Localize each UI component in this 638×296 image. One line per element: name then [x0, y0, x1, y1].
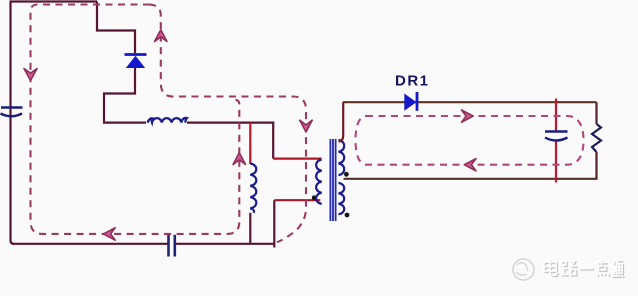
wire: left rail vertical	[11, 2, 15, 244]
transformer T1 secondary upper winding	[339, 140, 345, 175]
capacitor C-in bottom curved plate	[1, 114, 23, 117]
arrow up on x161 dashed	[155, 30, 168, 42]
wire: red horizontal to transformer primary top	[273, 158, 321, 160]
wire: output right vertical	[595, 102, 597, 180]
dashed loop C: output loop rounded rect	[356, 116, 584, 165]
svg-text:DR1: DR1	[395, 73, 430, 90]
diode DR1 cathode bar	[416, 92, 419, 111]
junction dot primary bottom	[312, 195, 317, 200]
inductor L2 (vertical coil)	[250, 164, 256, 213]
wire: diode lower staircase	[104, 67, 146, 123]
watermark text 电路一点通 (white layer)	[544, 260, 624, 277]
wire: horizontal after inductor to switch-node	[187, 121, 274, 123]
wire: top rail horizontal	[10, 0, 98, 2]
capacitor C-out bottom curved plate	[545, 138, 568, 141]
wire: vertical from primary bottom node down	[273, 200, 275, 247]
inductor L1 (horizontal coil)	[148, 118, 187, 123]
dashed loop B: middle loop (down-right path)	[149, 5, 306, 243]
transformer T1 core lines	[330, 139, 335, 221]
wire: secondary top lead up	[339, 102, 344, 141]
arrow down on left dashed rail	[24, 69, 37, 81]
watermark text 电路一点通 (shadow layer)	[545, 261, 625, 278]
capacitor C-in top plate	[1, 106, 23, 109]
arrow left on output bottom dashed	[464, 159, 476, 171]
wire: below coil L2 to bottom rail	[249, 213, 251, 244]
polarity dot secondary upper	[344, 172, 349, 177]
resistor R-load zigzag	[592, 124, 601, 152]
arrow up on x239 dashed	[233, 153, 246, 165]
wire: bottom rail right part	[176, 243, 274, 245]
transformer T1 primary winding	[316, 160, 322, 204]
watermark logo circle	[513, 259, 534, 280]
dashed loop A: left outer (top + left + bottom + up-branch)	[31, 5, 240, 234]
wire: red vertical branch above coil L2	[249, 123, 251, 164]
diode DR1 triangle	[404, 94, 416, 111]
polarity dot secondary lower	[345, 213, 350, 218]
wire: bottom rail left part	[12, 243, 168, 245]
wire: upper staircase to diode	[97, 2, 135, 54]
capacitor C-out top plate	[545, 130, 568, 133]
transformer T1 secondary lower winding	[339, 183, 345, 214]
diode D1 triangle (pointing up)	[126, 56, 145, 68]
wire: red horizontal to primary bottom	[274, 199, 320, 201]
arrow left on bottom dashed	[104, 228, 116, 241]
wire: output bottom rail	[344, 178, 597, 180]
wire: vertical drop to primary top	[272, 122, 274, 159]
diode D1 cathode bar	[125, 53, 147, 56]
wire: output top rail	[343, 101, 597, 103]
wire: red vertical through output capacitor	[555, 99, 557, 183]
capacitor C2 plate left	[167, 235, 170, 257]
arrow down on x305 dashed	[300, 120, 313, 132]
arrow right on output top dashed	[462, 110, 474, 122]
capacitor C2 plate right	[174, 235, 177, 257]
